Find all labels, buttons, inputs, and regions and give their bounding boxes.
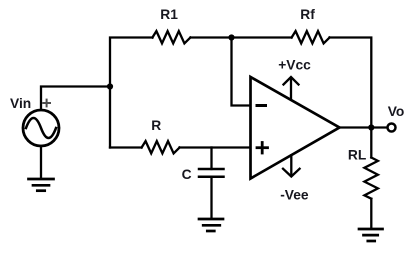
node junction dot at R1/Rf tap — [228, 34, 234, 40]
capacitor C — [199, 169, 224, 177]
resistor R — [142, 141, 180, 153]
wire Rf to right vertical — [330, 38, 372, 128]
terminal Vo open circle — [388, 124, 396, 132]
label plus polarity of Vin — [43, 100, 50, 107]
svg-text:R: R — [151, 118, 161, 133]
source Vin circle — [23, 110, 59, 146]
svg-text:Vo: Vo — [388, 104, 405, 119]
wire capacitor stem top — [210, 148, 212, 170]
svg-text:+Vcc: +Vcc — [278, 58, 311, 73]
svg-text:C: C — [182, 167, 192, 182]
wire right vertical to RL — [370, 128, 372, 158]
wire R to plus input — [180, 146, 250, 148]
node junction dot Vin branch — [107, 83, 113, 89]
op-amp plus input symbol — [257, 143, 268, 154]
svg-text:Rf: Rf — [300, 7, 315, 22]
arrow +Vcc — [284, 77, 299, 99]
wire RL to ground — [370, 199, 372, 229]
ground below Vin — [29, 179, 54, 191]
wire R1 to Rf — [191, 36, 292, 38]
wire capacitor to ground — [210, 177, 212, 219]
resistor R1 — [152, 31, 190, 43]
wire left vertical to R — [110, 146, 142, 148]
svg-text:-Vee: -Vee — [280, 188, 309, 203]
arrow -Vee — [283, 156, 300, 177]
wire top from left corner to R1 — [110, 38, 153, 148]
svg-text:R1: R1 — [160, 7, 178, 22]
resistor RL — [364, 158, 378, 199]
source Vin sine wave — [26, 118, 56, 138]
svg-text:RL: RL — [348, 147, 366, 162]
ground below capacitor — [199, 219, 223, 231]
resistor Rf — [292, 31, 330, 43]
node junction dot at output — [368, 124, 374, 130]
ground below RL — [359, 229, 383, 241]
wire op-amp output — [340, 126, 388, 128]
wire Vin branch — [41, 87, 110, 110]
svg-text:Vin: Vin — [10, 96, 31, 111]
op-amp minus input symbol — [257, 104, 266, 107]
op-amp U1 triangle — [251, 77, 340, 179]
wire Vin to ground — [40, 146, 42, 179]
wire inverting branch — [232, 38, 250, 106]
